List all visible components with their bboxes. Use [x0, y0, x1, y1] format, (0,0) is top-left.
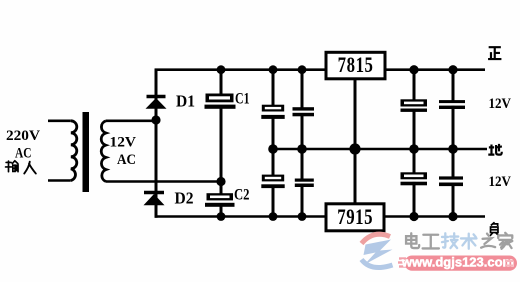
- regulator U2 7915: [326, 204, 384, 231]
- wire: secondary top lead to D1 junction: [106, 120, 156, 123]
- wire: top positive rail right of 7815: [384, 68, 485, 71]
- svg-text:220V: 220V: [6, 128, 40, 144]
- node dots top rail: [269, 65, 278, 74]
- glyph 家: [498, 233, 512, 249]
- capacitor column4 upper: [292, 107, 315, 116]
- glyph 负 (negative terminal): [490, 222, 499, 236]
- node dots ground rail: [268, 144, 278, 154]
- svg-text:D1: D1: [176, 92, 195, 111]
- regulator U1 7815: [326, 52, 385, 79]
- watermark url pill: [405, 256, 518, 271]
- watermark text 电工技术之家: [406, 233, 512, 249]
- svg-text:D2: D2: [175, 189, 194, 208]
- glyph 技: [442, 233, 458, 248]
- watermark logo bottom arc (blue): [362, 260, 393, 268]
- watermark logo lightning bolt: [364, 240, 393, 265]
- capacitor column5 upper (electrolytic): [400, 99, 428, 112]
- transformer T1 primary winding: [71, 121, 77, 181]
- svg-text:AC: AC: [15, 145, 32, 161]
- wire: secondary bottom lead crossing to C2 top node: [106, 180, 221, 183]
- wire: bottom negative rail left of 7915: [155, 215, 327, 218]
- svg-text:12V: 12V: [489, 96, 512, 112]
- glyph 电: [406, 233, 419, 248]
- svg-text:C1: C1: [235, 91, 250, 108]
- glyph 之: [481, 234, 495, 248]
- glyph 术: [461, 234, 477, 249]
- wire: top positive rail left of 7815: [155, 68, 327, 71]
- wire: C1/C2 column vertical: [220, 70, 223, 217]
- diode D2: [144, 193, 165, 206]
- wire: bottom negative rail right of 7915: [383, 215, 485, 218]
- svg-text:7815: 7815: [338, 53, 373, 78]
- wire: output column 5 vertical: [413, 70, 416, 217]
- capacitor C2 (electrolytic): [205, 193, 235, 207]
- glyph 地 (ground terminal): [488, 144, 502, 155]
- transformer core bar: [83, 112, 90, 192]
- node: C1/C2 midpoint (AC neutral): [216, 177, 225, 186]
- wire: filter column 3 vertical: [272, 70, 275, 217]
- wire: ground rail: [272, 148, 487, 151]
- watermark small pink dashes: [398, 259, 406, 267]
- capacitor column6 lower: [439, 176, 464, 186]
- capacitor column3 lower (electrolytic): [261, 175, 285, 189]
- capacitor column4 lower: [294, 179, 314, 188]
- svg-text:7915: 7915: [337, 205, 372, 230]
- node dots bottom rail: [269, 212, 278, 221]
- wire: transformer primary top lead: [48, 120, 71, 123]
- capacitor column6 upper: [439, 100, 466, 109]
- glyph 工: [423, 235, 439, 249]
- diode D1: [146, 97, 167, 109]
- capacitor column3 upper (electrolytic): [261, 105, 285, 119]
- node: C2 bottom on - rail: [217, 212, 226, 221]
- glyph 输入 (input): [6, 161, 36, 174]
- node: C1 top on + rail: [217, 65, 226, 74]
- transformer secondary winding: [101, 121, 106, 182]
- wire: output column 6 vertical: [452, 70, 455, 217]
- node: secondary top / diode junction: [151, 115, 160, 124]
- capacitor C1 (electrolytic): [204, 94, 236, 109]
- capacitor column5 lower (electrolytic): [400, 172, 428, 185]
- svg-text:C2: C2: [234, 187, 250, 204]
- svg-text:12V: 12V: [489, 174, 512, 190]
- svg-text:www.dgjs123.com: www.dgjs123.com: [401, 255, 514, 270]
- wire: 7815 ground pin down to rail and 7915 pin up: [354, 79, 357, 204]
- wire: transformer primary bottom lead: [48, 179, 71, 182]
- wire: diode column vertical: [155, 69, 158, 218]
- svg-text:12V: 12V: [110, 134, 137, 150]
- wire: filter column 4 vertical: [301, 70, 304, 217]
- svg-text:AC: AC: [117, 152, 136, 168]
- watermark logo swoosh (red arc): [362, 234, 391, 243]
- glyph 正 (positive terminal): [488, 47, 501, 59]
